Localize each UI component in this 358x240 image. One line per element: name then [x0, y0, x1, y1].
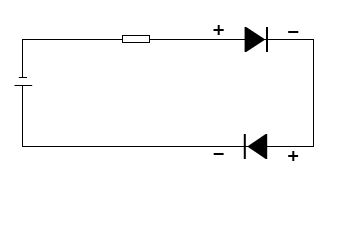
diode D2 triangle (points left) [247, 134, 267, 159]
wire: bottom, from bottom-right corner through D2 to bottom-left corner [22, 146, 314, 148]
wire: left side, top-left corner down to battery [22, 39, 24, 77]
wire: left side, battery down to bottom-left corner [22, 86, 24, 147]
diode D1 cathode bar [266, 27, 268, 52]
label + at anode of D2 [288, 151, 298, 161]
diode D1 triangle (points right) [245, 27, 266, 52]
wire: right side, top-right corner down to bottom-right corner [313, 39, 315, 147]
label minus at cathode of D2 [214, 153, 224, 155]
resistor R1 [123, 36, 150, 43]
wire: top, from top-left corner through R1 and D1 to top-right corner [22, 39, 314, 41]
battery B1 long plate (bottom terminal) [15, 85, 33, 87]
label minus at cathode of D1 [288, 31, 298, 33]
label + at anode of D1 [214, 25, 224, 35]
battery B1 short plate (top terminal) [19, 77, 27, 79]
diode D2 cathode bar [244, 134, 246, 159]
